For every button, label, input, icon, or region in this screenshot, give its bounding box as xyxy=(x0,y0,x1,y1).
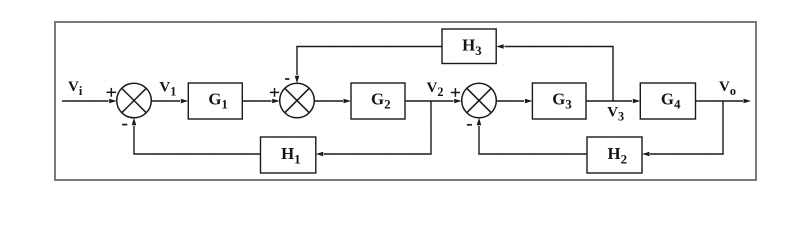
minus sign S2 xyxy=(285,78,289,80)
block G4 xyxy=(640,83,695,119)
outer frame xyxy=(55,22,756,180)
block H3 xyxy=(442,29,496,64)
wire S2 to G2 xyxy=(314,100,343,102)
wire G3 to G4 with node V3 xyxy=(586,100,632,102)
wire G4 to output xyxy=(696,100,744,102)
wire H1 to S1 bottom xyxy=(134,126,261,154)
wire S3 to G3 xyxy=(496,100,524,102)
wire S1 to G1 xyxy=(151,100,180,102)
minus sign S3 xyxy=(467,124,472,126)
summing junction S1 xyxy=(117,83,152,118)
wire H2 to S3 bottom xyxy=(479,126,587,154)
block H1 xyxy=(261,137,316,173)
plus sign S2 xyxy=(270,88,279,97)
plus sign S1 xyxy=(107,88,117,97)
summing junction S3 xyxy=(462,83,497,118)
wire input to S1 xyxy=(62,100,109,102)
summing junction S2 xyxy=(280,83,315,118)
minus sign S1 xyxy=(122,124,127,126)
wire H3 to S2 top xyxy=(297,47,442,76)
block G2 xyxy=(351,83,405,119)
plus sign S3 xyxy=(451,88,460,97)
wire V2 node down to H1 row xyxy=(324,101,431,154)
wire V3 node up to H3 row xyxy=(505,47,614,102)
wire Vo node down to H2 row xyxy=(650,101,723,154)
wire G2 to S3 with node V2 xyxy=(405,100,454,102)
wire G1 to S2 xyxy=(242,100,271,102)
block G3 xyxy=(532,83,586,119)
block G1 xyxy=(188,83,242,119)
block H2 xyxy=(587,137,642,173)
